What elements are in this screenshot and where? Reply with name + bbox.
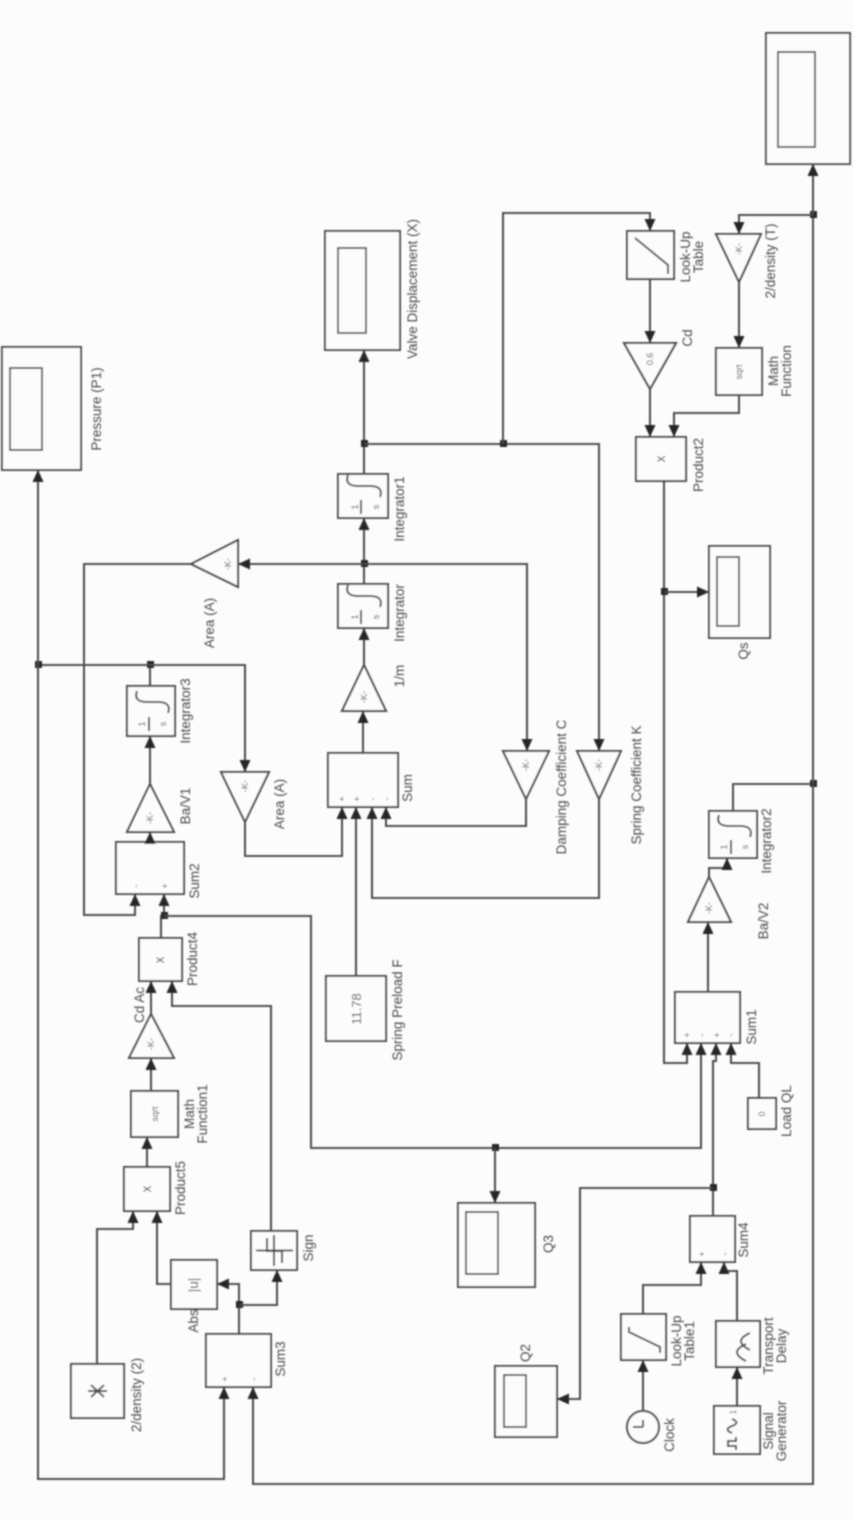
wire Integrator to Integrator1 (velocity) bbox=[363, 519, 365, 584]
svg-text:+: + bbox=[220, 1376, 230, 1381]
math function1 sqrt bbox=[131, 1084, 210, 1143]
svg-text:+: + bbox=[337, 796, 347, 801]
sum Sum2 bbox=[116, 842, 202, 899]
svg-text:s: s bbox=[371, 614, 381, 619]
svg-text:1: 1 bbox=[137, 721, 147, 726]
svg-text:1/m: 1/m bbox=[392, 665, 407, 688]
wire Integrator1 to Valve scope (displacement) bbox=[363, 351, 365, 474]
svg-text:Product5: Product5 bbox=[173, 1161, 188, 1215]
svg-text:Sum3: Sum3 bbox=[273, 1341, 288, 1376]
wire Area (A) left gain out to Sum in1 bbox=[245, 808, 342, 856]
wire Integrator2 out down to P2 rail bbox=[733, 784, 813, 811]
wire Math Function to Product2 in2 bbox=[674, 395, 739, 436]
svg-text:+: + bbox=[682, 1032, 692, 1037]
gain Damping Coefficient C bbox=[503, 719, 569, 854]
svg-text:+: + bbox=[160, 883, 170, 888]
integrator Integrator2 bbox=[709, 808, 774, 873]
svg-text:1: 1 bbox=[350, 614, 360, 619]
svg-text:+: + bbox=[352, 796, 362, 801]
wire 2/density (T) to Math Function bbox=[738, 282, 740, 347]
wire displacement tap down and left to Spring K bbox=[364, 444, 599, 750]
svg-text:-: - bbox=[697, 1034, 707, 1037]
svg-text:Ba/V1: Ba/V1 bbox=[178, 788, 193, 825]
svg-text:Abs: Abs bbox=[186, 1309, 201, 1333]
wire displacement to Look-Up Table bbox=[503, 213, 650, 444]
wire Sum out to 1/m bbox=[362, 712, 364, 753]
wire Clock to Look-Up Table1 bbox=[642, 1361, 644, 1411]
wire P1 top rail left and down to Sum3 in1 bbox=[38, 665, 224, 1479]
integrator Integrator3 bbox=[127, 678, 193, 743]
wire Q2 up and left to Q2 scope bbox=[558, 1188, 713, 1399]
math function sqrt bbox=[716, 345, 794, 397]
wire Ba/V1 to Integrator3 bbox=[149, 737, 151, 784]
scope Q3 bbox=[458, 1203, 556, 1287]
svg-text:1: 1 bbox=[729, 1409, 738, 1414]
svg-text:Sum2: Sum2 bbox=[187, 863, 202, 898]
svg-text:-K-: -K- bbox=[734, 243, 744, 255]
abs bbox=[171, 1260, 217, 1333]
wire Product4 out to Sum2 in2 bbox=[161, 895, 164, 938]
node P1 top tee bbox=[35, 661, 42, 668]
node displacement to LUT junction bbox=[500, 440, 507, 447]
wire Sum2 out to Ba/V1 bbox=[149, 833, 151, 842]
sum Sum4 bbox=[690, 1216, 751, 1262]
svg-text:2/density (2): 2/density (2) bbox=[129, 1358, 144, 1432]
constant Spring Preload F bbox=[326, 959, 405, 1060]
lookup Look-Up Table1 bbox=[621, 1314, 697, 1367]
node P2 rail junction bbox=[810, 780, 817, 787]
integrator Integrator1 bbox=[338, 474, 407, 542]
wire Load QL to Sum1 in4 bbox=[731, 1044, 759, 1098]
gain Spring Coefficient K bbox=[577, 725, 644, 844]
svg-text:-K-: -K- bbox=[145, 812, 155, 824]
svg-text:Sign: Sign bbox=[301, 1234, 316, 1261]
svg-text:+: + bbox=[697, 1251, 707, 1256]
gain Area (A) vertical bbox=[191, 540, 238, 648]
wire Damping C out to Sum in4 bbox=[386, 799, 526, 826]
node Q3 scope tap bbox=[492, 1144, 499, 1151]
svg-text:Function: Function bbox=[779, 345, 794, 397]
svg-text:-: - bbox=[382, 798, 392, 801]
svg-text:Clock: Clock bbox=[662, 1418, 677, 1452]
svg-text:Integrator1: Integrator1 bbox=[392, 476, 407, 541]
svg-text:Cd: Cd bbox=[680, 329, 695, 346]
svg-text:+: + bbox=[712, 1032, 722, 1037]
wire tap to Q3 scope bbox=[494, 1148, 496, 1202]
svg-text:Sum: Sum bbox=[400, 774, 415, 802]
svg-text:-K-: -K- bbox=[594, 759, 604, 771]
sum Sum bbox=[328, 753, 415, 807]
svg-text:2/density (T): 2/density (T) bbox=[763, 223, 778, 298]
svg-text:Integrator: Integrator bbox=[392, 584, 407, 642]
wire velocity tap up to Area (A) vertical gain bbox=[239, 563, 364, 565]
wire Product5 to Math Function1 bbox=[146, 1138, 148, 1167]
svg-text:Spring Preload F: Spring Preload F bbox=[390, 959, 405, 1060]
svg-text:Pressure (P1): Pressure (P1) bbox=[89, 367, 104, 450]
svg-text:x: x bbox=[152, 956, 167, 963]
sum Sum1 bbox=[675, 992, 759, 1045]
gain Cd Ac bbox=[129, 987, 174, 1058]
constant 2/density (2) bbox=[71, 1358, 144, 1432]
gain 2/density (T) bbox=[716, 223, 778, 298]
svg-text:1: 1 bbox=[350, 504, 360, 509]
svg-text:Ba/V2: Ba/V2 bbox=[756, 903, 771, 940]
wire Sign out to Product4 in2 bbox=[172, 982, 271, 1231]
node P1 junction bbox=[147, 661, 154, 668]
svg-text:Q2: Q2 bbox=[518, 1344, 533, 1362]
svg-text:Delay: Delay bbox=[774, 1328, 789, 1363]
node P2 right junction bbox=[810, 211, 817, 218]
svg-text:-: - bbox=[368, 798, 378, 801]
svg-text:-K-: -K- bbox=[146, 1038, 156, 1050]
clock bbox=[627, 1411, 677, 1452]
scope P2 (bottom right, unlabeled) bbox=[766, 33, 850, 164]
svg-text:-K-: -K- bbox=[240, 780, 250, 792]
sum Sum3 bbox=[206, 1334, 288, 1387]
gain Ba/V2 bbox=[688, 877, 771, 939]
lookup Look-Up Table bbox=[627, 231, 706, 283]
wire velocity tap down to Damping C bbox=[364, 564, 527, 750]
wire P1 tap down to Area (A) left gain bbox=[150, 665, 245, 771]
wire tap down to Qs scope bbox=[664, 591, 708, 593]
node Q1 branch junction bbox=[161, 912, 168, 919]
svg-text:-: - bbox=[726, 1034, 736, 1037]
svg-text:-K-: -K- bbox=[704, 902, 714, 914]
svg-text:Integrator3: Integrator3 bbox=[178, 678, 193, 743]
wire Spring K out to Sum in3 bbox=[372, 799, 599, 898]
gain 1/m bbox=[342, 665, 407, 711]
gain Ba/V1 bbox=[127, 784, 193, 832]
wire Abs out to Product5 in2 bbox=[157, 1212, 171, 1284]
wire Q1 down to Sum1 in2 bbox=[164, 916, 701, 1148]
node Sum3 branch junction bbox=[236, 1301, 243, 1308]
sign bbox=[251, 1231, 316, 1270]
node velocity junction bbox=[361, 560, 368, 567]
transport delay bbox=[716, 1317, 789, 1375]
scope Valve Displacement (X) bbox=[325, 219, 420, 359]
wire Transport Delay to Sum4 in2 bbox=[724, 1263, 737, 1321]
svg-text:Generator: Generator bbox=[774, 1400, 789, 1461]
svg-text:Q3: Q3 bbox=[541, 1235, 556, 1253]
wire 2/density (2) to Product5 in1 bbox=[97, 1212, 133, 1364]
product Product4 bbox=[139, 931, 200, 986]
node Q2 branch junction bbox=[710, 1184, 717, 1191]
wire Look-Up Table to Cd bbox=[649, 279, 651, 342]
svg-text:Area (A): Area (A) bbox=[202, 598, 217, 648]
svg-text:1: 1 bbox=[719, 844, 729, 849]
svg-text:x: x bbox=[653, 455, 668, 462]
node displacement junction bbox=[361, 440, 368, 447]
svg-text:Qs: Qs bbox=[736, 642, 751, 660]
svg-text:11.78: 11.78 bbox=[349, 993, 364, 1025]
integrator Integrator bbox=[338, 584, 407, 642]
gain Cd bbox=[624, 329, 695, 389]
svg-text:s: s bbox=[371, 504, 381, 509]
wire Integrator3 out to P1 node bbox=[149, 665, 151, 686]
svg-text:-K-: -K- bbox=[359, 691, 369, 703]
wire P1 up to top rail bbox=[38, 664, 150, 666]
svg-text:Table1: Table1 bbox=[682, 1321, 697, 1361]
wire Spring Preload F to Sum in2 bbox=[355, 808, 357, 976]
svg-text:Table: Table bbox=[691, 241, 706, 273]
wire P2 tap up to 2/density (T) bbox=[739, 215, 813, 233]
svg-text:Damping Coefficient C: Damping Coefficient C bbox=[554, 719, 569, 854]
wire Signal Generator to Transport Delay bbox=[736, 1368, 738, 1406]
wire Math Function1 to Cd Ac bbox=[150, 1059, 152, 1091]
wire Area (A) vertical out across top to Sum2 in1 bbox=[84, 564, 191, 915]
scope Pressure (P1) bbox=[2, 347, 104, 470]
wire Look-Up Table1 to Sum4 in1 bbox=[643, 1263, 701, 1314]
svg-text:Product4: Product4 bbox=[185, 931, 200, 986]
svg-text:Load QL: Load QL bbox=[779, 1085, 794, 1137]
product Product2 bbox=[636, 437, 706, 492]
wire P2 to bottom-right scope bbox=[812, 165, 814, 215]
wire Ba/V2 to Integrator2 bbox=[709, 859, 727, 877]
svg-text:sqrt: sqrt bbox=[734, 364, 744, 380]
svg-text:-K-: -K- bbox=[223, 558, 233, 570]
wire Cd to Product2 in1 bbox=[649, 389, 651, 436]
svg-text:-: - bbox=[249, 1378, 259, 1381]
svg-text:0: 0 bbox=[757, 1111, 767, 1116]
svg-text:Sum1: Sum1 bbox=[744, 1009, 759, 1044]
scope Q2 bbox=[495, 1344, 557, 1437]
svg-text:-K-: -K- bbox=[521, 759, 531, 771]
svg-text:-: - bbox=[131, 885, 141, 888]
svg-text:Area (A): Area (A) bbox=[272, 779, 287, 829]
svg-text:|u|: |u| bbox=[186, 1278, 201, 1293]
wire 1/m to Integrator bbox=[363, 629, 365, 665]
wire P1 to Pressure scope bbox=[37, 471, 39, 665]
wire Sum1 out to Ba/V2 bbox=[707, 923, 709, 992]
signal generator bbox=[714, 1400, 789, 1461]
svg-text:s: s bbox=[158, 721, 168, 726]
svg-text:x: x bbox=[139, 1185, 154, 1192]
svg-text:s: s bbox=[740, 844, 750, 849]
svg-text:0.6: 0.6 bbox=[645, 353, 655, 366]
wire Product2 out left to Sum1 in1 bbox=[664, 481, 687, 1063]
wire Sum3 out bbox=[218, 1284, 239, 1334]
svg-text:Spring Coefficient K: Spring Coefficient K bbox=[629, 725, 644, 844]
node Qs scope tap bbox=[661, 588, 668, 595]
svg-text:Valve Displacement (X): Valve Displacement (X) bbox=[405, 219, 420, 359]
svg-text:Product2: Product2 bbox=[691, 438, 706, 492]
wire Cd Ac to Product4 in1 bbox=[150, 982, 152, 1014]
product Product5 bbox=[124, 1161, 188, 1215]
wire Sum4 out to Sum1 in3 bbox=[713, 1044, 716, 1216]
constant Load QL bbox=[748, 1085, 794, 1137]
gain Area (A) left-pointing bbox=[221, 772, 287, 829]
scope Qs bbox=[709, 546, 770, 660]
svg-text:Integrator2: Integrator2 bbox=[759, 808, 774, 873]
svg-text:Cd Ac: Cd Ac bbox=[132, 987, 147, 1023]
svg-text:-: - bbox=[720, 1253, 730, 1256]
svg-text:Sum4: Sum4 bbox=[736, 1222, 751, 1258]
wire P2 rail across bottom bbox=[253, 215, 813, 1484]
svg-text:Function1: Function1 bbox=[195, 1084, 210, 1143]
wire branch down to Sign bbox=[239, 1271, 277, 1305]
svg-text:sqrt: sqrt bbox=[150, 1106, 160, 1122]
